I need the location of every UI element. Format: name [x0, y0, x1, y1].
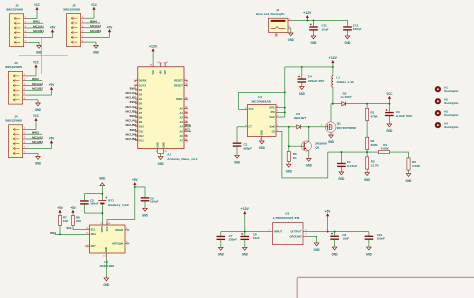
svg-text:VIN: VIN	[152, 70, 155, 74]
wire SDA to RTC	[50, 231, 87, 235]
microcontroller A1 Arduino_Nano_v3.x body	[138, 67, 198, 161]
power +12V above L1	[329, 56, 338, 67]
svg-text:GND: GND	[286, 169, 293, 173]
capacitor C4 220uF 25V	[298, 66, 325, 87]
svg-text:GND: GND	[332, 252, 339, 256]
svg-text:MCUB1: MCUB1	[126, 96, 137, 100]
svg-text:Battery_Cell: Battery_Cell	[108, 203, 128, 207]
ground at U1	[259, 139, 266, 150]
wire U1 drive to D1 and gate node	[279, 126, 297, 128]
ground at J4 pin 6	[27, 153, 41, 165]
svg-text:39532065: 39532065	[63, 7, 81, 11]
svg-text:RESET: RESET	[174, 79, 183, 83]
mounting hole H4	[435, 122, 459, 130]
ground at J3 pin 6	[27, 100, 41, 112]
cursor crosshair	[19, 38, 68, 74]
svg-text:MCUA4: MCUA4	[126, 132, 137, 136]
battery BT1 Battery_Cell	[98, 194, 128, 213]
svg-text:RST: RST	[91, 244, 97, 248]
sheet frame corner	[297, 277, 474, 298]
svg-text:VCC: VCC	[33, 114, 39, 118]
svg-text:A7: A7	[179, 139, 183, 143]
no-connect A1 A6	[186, 135, 188, 137]
svg-text:SDA: SDA	[185, 123, 191, 127]
svg-text:A6: A6	[179, 134, 183, 138]
power +5V at J4 pin 5	[27, 137, 55, 149]
wire D1 cathode to Q1 gate	[300, 126, 325, 128]
svg-text:+5V: +5V	[49, 83, 55, 87]
svg-text:VCC: VCC	[34, 3, 40, 7]
svg-text:13.7K: 13.7K	[371, 164, 380, 168]
wire J5 pin 4 net MCUB4	[85, 29, 101, 33]
no-connect A1 A1	[186, 112, 188, 114]
ground under R6	[406, 174, 411, 177]
ground under C9	[143, 208, 148, 211]
svg-text:U3: U3	[285, 211, 289, 215]
no-connect A1 AREF	[186, 98, 188, 100]
svg-text:+5V: +5V	[325, 209, 331, 213]
connector J1 Barrel_Jack_MountingPin	[256, 8, 292, 32]
svg-text:MCUB3: MCUB3	[32, 140, 43, 144]
mounting hole H3	[435, 110, 459, 118]
svg-text:SwC: SwC	[269, 115, 275, 119]
svg-text:D2: D2	[139, 88, 143, 92]
svg-text:MCUB4: MCUB4	[90, 29, 101, 33]
capacitor C1 0.47uF	[337, 152, 357, 172]
connector J4 39532065	[5, 115, 27, 158]
svg-text:GND: GND	[156, 142, 159, 148]
ground under C3	[387, 124, 392, 127]
ground at J5 pin 6	[85, 42, 99, 54]
svg-text:100nF: 100nF	[150, 200, 159, 204]
svg-text:3V3: 3V3	[164, 70, 167, 75]
resistor R4 4.92K	[378, 143, 389, 154]
svg-text:GND: GND	[105, 247, 108, 253]
svg-text:39532065: 39532065	[5, 119, 23, 123]
svg-text:+5V: +5V	[132, 178, 138, 182]
svg-text:BW2: BW2	[130, 100, 137, 104]
IC U2 DS3231 body	[90, 225, 126, 268]
capacitor C6 10uF	[330, 232, 349, 248]
no-connect A1 3V3 pin	[164, 62, 169, 75]
svg-text:SCL: SCL	[66, 226, 72, 230]
power +12V at A1 VIN	[149, 45, 158, 75]
ground under C6	[332, 247, 337, 250]
svg-text:D3: D3	[139, 93, 143, 97]
wire switch node	[331, 103, 342, 105]
power +5V at J3 pin 5	[27, 83, 55, 95]
svg-text:GND: GND	[218, 253, 225, 257]
no-connect A1 RESET	[186, 80, 188, 82]
label SDA on A1 A4	[185, 123, 191, 127]
ground under C7	[219, 247, 224, 250]
wire J4 pin 2 net BW3	[27, 130, 42, 134]
power +5V for RTC	[107, 178, 138, 225]
wire regulator output rail	[309, 231, 369, 233]
svg-text:BT1: BT1	[108, 198, 114, 202]
svg-text:CT: CT	[248, 125, 252, 129]
ground at U3 GROUND pin	[309, 236, 320, 252]
diode D1 1N914WT	[294, 112, 307, 129]
svg-text:MCUB4: MCUB4	[126, 137, 137, 141]
A1 right pins	[174, 79, 188, 143]
ground under C12	[345, 36, 350, 39]
svg-text:D12: D12	[139, 134, 144, 138]
svg-text:680pF: 680pF	[243, 146, 252, 150]
svg-text:GND: GND	[35, 108, 42, 112]
wire J2 pin 2 net BW1	[28, 19, 43, 23]
wire J5 pin 3 net MCUA4	[85, 24, 101, 28]
svg-text:GND: GND	[338, 177, 345, 181]
power +12V at regulator input	[241, 207, 250, 231]
svg-text:+5V: +5V	[57, 206, 63, 210]
resistor R6 9.53K	[407, 158, 421, 174]
resistor R2 392K	[366, 137, 379, 152]
connector J5 39532065	[63, 3, 85, 46]
svg-text:IRF7205TRPBF: IRF7205TRPBF	[337, 126, 357, 130]
svg-text:MCUA2: MCUA2	[126, 105, 137, 109]
no-connect A1 +5V pin	[157, 62, 162, 75]
svg-text:39532065: 39532065	[5, 65, 23, 69]
svg-text:100nF: 100nF	[90, 202, 99, 206]
svg-text:IPK: IPK	[271, 110, 275, 114]
wire Q1 drain to switch node	[330, 104, 332, 122]
ground at U2	[103, 258, 110, 287]
svg-text:GND: GND	[314, 248, 321, 252]
svg-text:392K: 392K	[371, 143, 379, 147]
wire R4 to R6	[390, 152, 409, 158]
svg-text:OUTPUT: OUTPUT	[290, 230, 301, 234]
svg-text:GND: GND	[345, 41, 352, 45]
svg-text:GND: GND	[364, 178, 371, 182]
ground under C4	[300, 87, 305, 90]
svg-text:MountingHole: MountingHole	[444, 125, 459, 129]
svg-text:GND: GND	[162, 142, 165, 148]
ground under C2	[235, 155, 240, 158]
svg-text:+5V: +5V	[159, 70, 162, 75]
svg-text:GND: GND	[259, 146, 266, 150]
svg-text:A1: A1	[179, 111, 183, 115]
svg-text:VCC: VCC	[387, 92, 393, 96]
svg-text:DRC: DRC	[269, 106, 275, 110]
svg-text:D9: D9	[139, 120, 143, 124]
svg-text:BW1: BW1	[130, 86, 137, 90]
svg-text:+5V: +5V	[49, 137, 55, 141]
svg-text:10uF: 10uF	[322, 27, 329, 31]
svg-text:GND: GND	[386, 129, 393, 133]
svg-text:+5V: +5V	[50, 26, 56, 30]
A1 left pins D0-D13	[135, 79, 147, 143]
no-connect A1 A7	[186, 140, 188, 142]
svg-text:D10: D10	[139, 125, 144, 129]
power VCC at J2 pin 1	[28, 3, 40, 18]
svg-text:MCUA3: MCUA3	[32, 135, 43, 139]
svg-text:Q1: Q1	[337, 121, 341, 125]
svg-text:Arduino_Nano_v3.x: Arduino_Nano_v3.x	[167, 157, 197, 161]
svg-text:10uF: 10uF	[342, 236, 349, 240]
svg-text:+12V: +12V	[149, 45, 158, 49]
regulator U3 L7805CD2T-TR body	[273, 211, 303, 244]
power VCC output	[387, 92, 393, 104]
svg-text:VBAT: VBAT	[101, 226, 104, 233]
connector J3 39532065	[5, 61, 27, 104]
capacitor C7 330nF	[217, 232, 238, 248]
svg-text:GND: GND	[93, 51, 100, 55]
svg-text:470K: 470K	[371, 115, 379, 119]
power VCC at J5 pin 1	[85, 3, 97, 18]
svg-text:0.47uF: 0.47uF	[347, 164, 358, 168]
svg-text:+12V: +12V	[241, 207, 250, 211]
svg-text:Barrel_Jack_MountingPin: Barrel_Jack_MountingPin	[256, 12, 285, 16]
wire J3 pin 2 net BW2	[27, 77, 42, 81]
ground at J1 pin 2	[288, 28, 295, 42]
capacitor C2 680pF	[233, 127, 253, 156]
svg-text:VCC: VCC	[248, 107, 254, 111]
no-connect D1/TX	[134, 84, 136, 86]
no-connect A1 A2	[186, 117, 188, 119]
ground under C10	[367, 247, 372, 250]
no-connect U2 INT/SQW	[127, 242, 129, 244]
svg-text:D1/TX: D1/TX	[139, 83, 147, 87]
no-connect U2 32KHZ	[127, 229, 129, 231]
svg-text:MountingHole: MountingHole	[444, 113, 459, 117]
ground under R3	[365, 173, 370, 176]
power VCC at J4 pin 1	[27, 114, 39, 129]
svg-text:GND: GND	[366, 252, 373, 256]
svg-text:100nF: 100nF	[353, 27, 362, 31]
wire U1 feedback path	[279, 131, 328, 178]
svg-text:GND: GND	[288, 38, 295, 42]
svg-text:GND: GND	[299, 92, 306, 96]
svg-text:D13: D13	[139, 139, 144, 143]
power +5V at J2 pin 5	[28, 26, 56, 38]
svg-text:GND: GND	[261, 130, 264, 136]
svg-text:D6: D6	[139, 106, 143, 110]
svg-text:GND: GND	[103, 283, 110, 287]
svg-text:VCC: VCC	[33, 61, 39, 65]
wire J3 pin 4 net MCUB2	[27, 87, 43, 91]
resistor R7 10K pullup	[57, 206, 69, 234]
svg-text:+5V: +5V	[70, 206, 76, 210]
resistor R8 10K pullup	[70, 206, 82, 230]
svg-text:SDA: SDA	[91, 232, 97, 236]
svg-text:BW3: BW3	[32, 130, 39, 134]
svg-text:MCUB1: MCUB1	[33, 29, 44, 33]
svg-text:32KHZ: 32KHZ	[115, 228, 124, 232]
svg-text:A5: A5	[179, 129, 183, 133]
ground at A1 GND pins	[156, 142, 168, 166]
svg-text:GND: GND	[242, 253, 249, 257]
svg-text:H4: H4	[444, 122, 448, 126]
svg-text:BW1: BW1	[33, 19, 40, 23]
capacitor C5 100nF	[80, 194, 99, 213]
svg-text:INT/SQW: INT/SQW	[112, 241, 123, 245]
no-connect A1 A0	[186, 107, 188, 109]
svg-text:GND: GND	[406, 179, 413, 183]
svg-text:4.92K: 4.92K	[381, 147, 390, 151]
capacitor C11 10uF	[309, 19, 328, 35]
svg-text:SCL: SCL	[185, 128, 191, 132]
svg-text:MountingHole: MountingHole	[444, 89, 459, 93]
svg-text:GND: GND	[311, 41, 318, 45]
wire U1 switch bus	[284, 67, 286, 117]
svg-text:MCUB2: MCUB2	[126, 109, 137, 113]
ground under R5	[287, 164, 292, 167]
wire battery top rail	[84, 193, 103, 195]
ground at Q1 source	[328, 132, 335, 144]
svg-text:VCC: VCC	[91, 3, 97, 7]
U3 pins	[266, 229, 309, 236]
svg-text:SCL: SCL	[91, 228, 97, 232]
svg-text:D0/RX: D0/RX	[139, 79, 147, 83]
wire battery bottom rail to VBAT	[84, 212, 103, 225]
svg-text:100nF: 100nF	[377, 236, 386, 240]
svg-text:A0: A0	[179, 106, 183, 110]
capacitor C3 3.3uF 50V	[385, 104, 412, 124]
no-connect U2 RST	[85, 245, 87, 247]
resistor R3 13.7K	[366, 152, 380, 173]
svg-text:330nF: 330nF	[229, 237, 238, 241]
svg-text:BW3: BW3	[130, 114, 137, 118]
svg-text:3.3uF 50V: 3.3uF 50V	[396, 114, 413, 118]
mounting hole H2	[435, 98, 459, 106]
svg-text:D5: D5	[139, 102, 143, 106]
svg-text:H1: H1	[444, 86, 448, 90]
IC U1 MC34063AD body	[247, 95, 276, 136]
svg-text:10K: 10K	[76, 219, 82, 223]
svg-text:D7: D7	[139, 111, 143, 115]
svg-text:H3: H3	[444, 110, 448, 114]
svg-text:MCUA4: MCUA4	[90, 24, 101, 28]
capacitor C9 100nF	[134, 186, 159, 208]
svg-text:MCUA2: MCUA2	[32, 82, 43, 86]
svg-text:1N914WT: 1N914WT	[294, 116, 307, 120]
svg-text:+5V: +5V	[107, 25, 113, 29]
svg-text:VCC: VCC	[106, 226, 109, 231]
svg-text:RESET: RESET	[174, 83, 183, 87]
svg-text:GND: GND	[328, 140, 335, 144]
wire Q2 collector to gate node	[308, 127, 310, 142]
wire +12V rail from J1	[292, 19, 348, 21]
ground at J2 pin 6	[28, 42, 42, 54]
wire J4 pin 4 net MCUB3	[27, 140, 43, 144]
wire J5 pin 2 net BW4	[85, 19, 100, 23]
capacitor C10 100nF	[365, 232, 386, 248]
capacitor C12 100nF	[343, 20, 361, 36]
power +5V at regulator output	[325, 209, 331, 231]
no-connect A1 RESET	[186, 84, 188, 86]
svg-text:A3: A3	[179, 120, 183, 124]
svg-text:A4: A4	[179, 125, 183, 129]
svg-text:D11: D11	[139, 129, 144, 133]
svg-text:+12V: +12V	[303, 11, 312, 15]
svg-text:SDA: SDA	[50, 231, 56, 235]
power +5V at J5 pin 5	[85, 25, 113, 37]
wire regulator input rail	[221, 231, 266, 233]
svg-text:LL4007: LL4007	[341, 95, 352, 99]
svg-text:+12V: +12V	[329, 56, 338, 60]
svg-text:SwE: SwE	[270, 125, 276, 129]
ground under C11	[311, 36, 316, 39]
wire to U1 VCC pin	[239, 92, 285, 109]
svg-text:D8: D8	[139, 116, 143, 120]
svg-text:100uH, 1.4A: 100uH, 1.4A	[336, 80, 354, 84]
resistor R1 470K	[366, 104, 379, 138]
svg-text:A2: A2	[179, 116, 183, 120]
svg-text:MCUA3: MCUA3	[126, 119, 137, 123]
svg-text:BW2: BW2	[32, 77, 39, 81]
svg-text:220uF 25V: 220uF 25V	[308, 79, 325, 83]
capacitor C8 10uF	[241, 232, 260, 248]
svg-text:MCUA1: MCUA1	[126, 91, 137, 95]
ground under C8	[243, 247, 248, 250]
svg-text:H2: H2	[444, 98, 448, 102]
ground under C1	[339, 172, 344, 175]
svg-text:GROUND: GROUND	[289, 234, 301, 238]
wire SCL to RTC	[66, 226, 87, 230]
svg-text:MC34063AD: MC34063AD	[252, 99, 272, 103]
svg-text:DS3231MZ: DS3231MZ	[100, 264, 115, 268]
svg-text:GND: GND	[234, 161, 241, 165]
ground above battery	[99, 176, 106, 193]
svg-text:L7805CD2T-TR: L7805CD2T-TR	[273, 216, 300, 220]
svg-text:MCUB3: MCUB3	[126, 123, 137, 127]
power VCC at J3 pin 1	[27, 61, 39, 76]
diode D2 LL4007	[341, 91, 352, 106]
wire J2 pin 4 net MCUB1	[28, 29, 44, 33]
label SCL on A1 A5	[185, 128, 191, 132]
ground at Q2 emitter	[306, 151, 313, 168]
svg-text:MCUB2: MCUB2	[32, 87, 43, 91]
svg-text:GND: GND	[99, 176, 106, 180]
svg-text:A1: A1	[167, 152, 171, 156]
svg-text:BW4: BW4	[130, 128, 137, 132]
transistor Q2 2N3906	[289, 141, 327, 151]
wire D2 cathode to VCC node	[345, 103, 390, 105]
svg-text:GND: GND	[306, 164, 313, 168]
transistor Q1 IRF7205	[321, 121, 357, 132]
svg-text:AREF: AREF	[176, 97, 183, 101]
no-connect A1 A3	[186, 121, 188, 123]
wire J4 pin 3 net MCUA3	[27, 135, 43, 139]
svg-text:Q2: Q2	[315, 145, 319, 149]
svg-text:39532065: 39532065	[6, 8, 24, 12]
no-connect J1 mounting pin	[275, 33, 279, 37]
svg-text:9.53K: 9.53K	[412, 164, 421, 168]
svg-text:BW4: BW4	[90, 19, 97, 23]
wire +12V rail to U1	[285, 66, 334, 68]
svg-text:CII: CII	[272, 129, 276, 133]
svg-text:10uF: 10uF	[253, 236, 260, 240]
power +12V at J1	[303, 11, 312, 21]
U2 pins	[86, 223, 128, 259]
mounting hole H1	[435, 86, 459, 94]
svg-text:GND: GND	[158, 162, 165, 166]
svg-text:10K: 10K	[63, 219, 69, 223]
wire feedback rail	[328, 151, 379, 153]
U1 pins	[245, 106, 285, 141]
svg-text:GND: GND	[35, 162, 42, 166]
svg-text:D4: D4	[139, 97, 143, 101]
no-connect D0/RX	[134, 80, 136, 82]
connector J2 39532065	[6, 4, 28, 47]
svg-text:GND: GND	[142, 214, 149, 218]
wire J3 pin 3 net MCUA2	[27, 82, 43, 86]
svg-text:MountingHole: MountingHole	[444, 101, 459, 105]
resistor R5 1K	[287, 127, 297, 164]
inductor L1 100uH 1.4A	[332, 67, 355, 104]
svg-text:MCUA1: MCUA1	[33, 24, 44, 28]
